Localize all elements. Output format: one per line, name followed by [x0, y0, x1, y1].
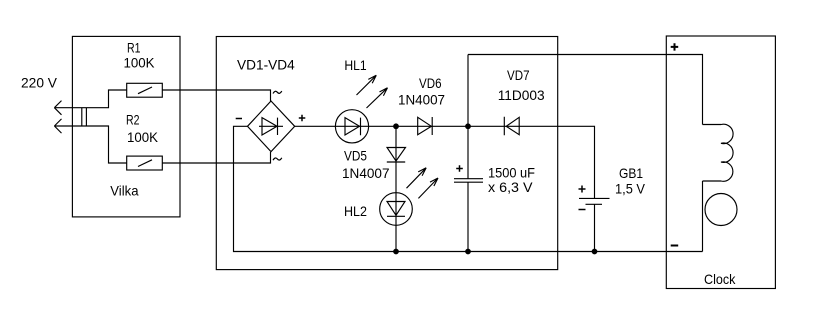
- polarity plus at bridge output: [299, 115, 306, 122]
- battery GB1 plates: [579, 198, 610, 204]
- junction HL1 VD5 dot: [394, 124, 399, 129]
- inductor L1 clock coil: [703, 124, 734, 181]
- diode VD6: [418, 117, 433, 135]
- bridge rectifier VD1-VD4 diamond: [248, 101, 295, 152]
- capacitor C1 1500uF plates: [454, 179, 483, 183]
- polarity minus at clock terminal: [671, 245, 679, 247]
- wire coil bottom lead to bottom rail: [702, 181, 704, 252]
- LED HL2 light arrows: [407, 168, 427, 188]
- resistor R2: [127, 156, 163, 170]
- box Clock enclosure: [666, 36, 775, 289]
- svg-text:Vilka: Vilka: [110, 183, 138, 199]
- svg-text:220 V: 220 V: [21, 75, 58, 91]
- LED HL1 diode: [345, 118, 361, 136]
- LED HL2 diode: [387, 202, 405, 217]
- wire node A vertical with capacitor top lead: [467, 55, 469, 179]
- tilde AC mark top of bridge: [273, 91, 282, 93]
- plug arrow top: [54, 101, 61, 115]
- wire battery minus lead down to bottom rail: [594, 204, 596, 251]
- svg-text:VD7: VD7: [507, 67, 530, 83]
- polarity plus at clock terminal: [671, 43, 679, 50]
- polarity minus at bridge output: [236, 118, 242, 120]
- junction HL2 bottom dot: [394, 249, 399, 254]
- svg-text:100K: 100K: [124, 55, 156, 71]
- svg-text:1N4007: 1N4007: [398, 92, 445, 108]
- diode VD7: [504, 117, 519, 135]
- svg-text:VD6: VD6: [419, 75, 442, 91]
- LED HL1 light arrows: [357, 75, 377, 95]
- wire top feed from node A to clock coil: [468, 55, 703, 125]
- polarity minus at battery GB1: [579, 209, 586, 211]
- resistor R1: [127, 83, 163, 97]
- plug arrow bottom: [54, 119, 61, 133]
- svg-text:HL2: HL2: [344, 203, 367, 219]
- svg-text:1,5 V: 1,5 V: [615, 181, 646, 197]
- junction battery bottom dot: [592, 249, 597, 254]
- svg-text:x 6,3 V: x 6,3 V: [488, 179, 533, 195]
- wire main positive rail to battery branch: [295, 126, 595, 198]
- svg-text:1N4007: 1N4007: [342, 165, 390, 181]
- svg-text:Clock: Clock: [704, 271, 736, 287]
- bridge inner diode: [259, 118, 283, 135]
- LED HL2 circle: [380, 193, 413, 226]
- svg-text:11D003: 11D003: [498, 87, 545, 103]
- svg-text:100K: 100K: [127, 129, 159, 145]
- wire VD5 HL2 branch: [395, 126, 397, 251]
- wire capacitor bottom lead to bottom rail: [467, 182, 469, 251]
- wire resistor R1 to bridge top vertex: [162, 90, 270, 101]
- wire bridge minus output and bottom rail to clock: [234, 126, 703, 251]
- tilde AC mark bottom of bridge: [273, 158, 282, 160]
- box main power-supply enclosure: [216, 37, 557, 270]
- svg-text:R2: R2: [126, 112, 140, 128]
- junction capacitor bottom dot: [466, 249, 471, 254]
- polarity plus at capacitor: [456, 165, 463, 172]
- wire plug top lead to resistor R1: [54, 90, 126, 108]
- svg-text:VD1-VD4: VD1-VD4: [237, 57, 295, 73]
- polarity plus at battery GB1: [579, 186, 586, 193]
- wire resistor R2 to bridge bottom vertex: [162, 152, 270, 163]
- box Vilka (plug enclosure): [72, 36, 180, 217]
- svg-text:GB1: GB1: [619, 165, 643, 181]
- junction node A dot: [466, 124, 471, 129]
- LED HL1 circle: [335, 110, 368, 143]
- svg-text:HL1: HL1: [344, 57, 366, 73]
- svg-text:R1: R1: [127, 40, 141, 56]
- wire plug bottom lead to resistor R2: [54, 126, 126, 163]
- rotor circle of clock motor: [705, 194, 737, 226]
- svg-text:VD5: VD5: [344, 148, 367, 164]
- diode VD5: [387, 148, 406, 163]
- plug XP1 mains pins: [82, 108, 87, 126]
